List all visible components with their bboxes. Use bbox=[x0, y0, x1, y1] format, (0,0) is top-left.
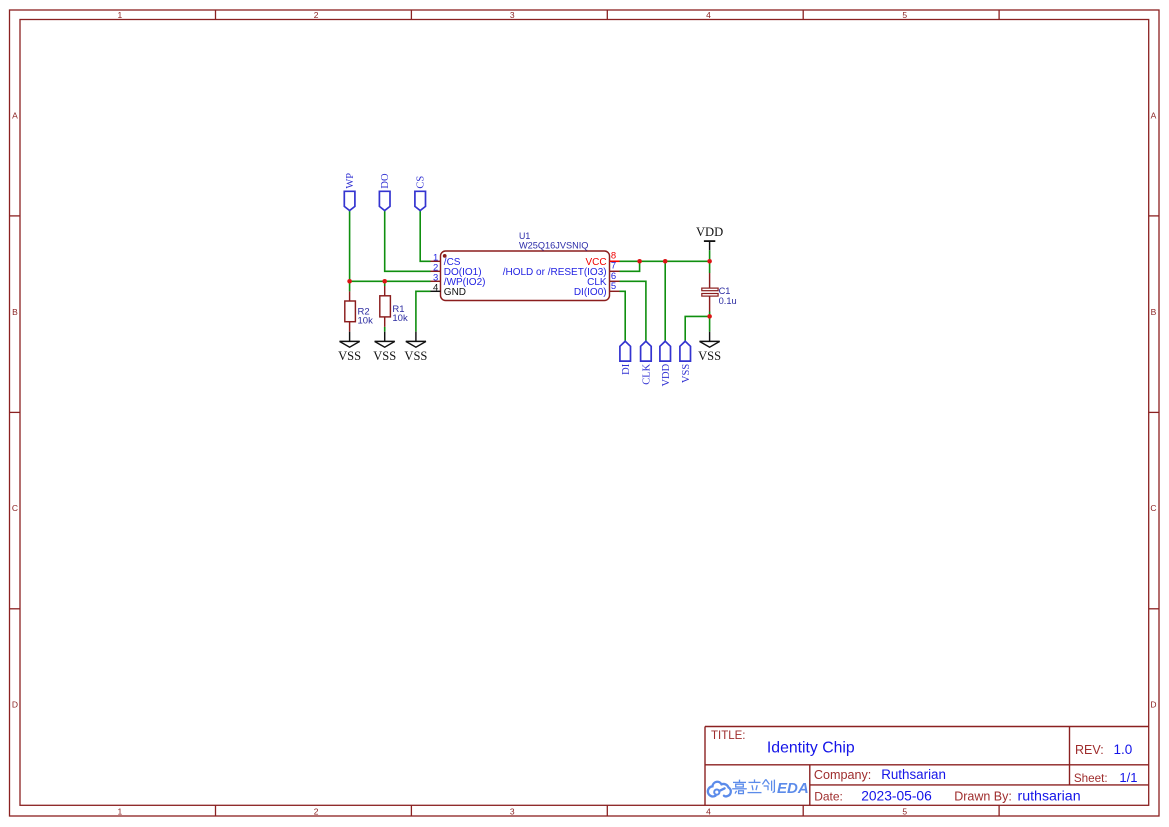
svg-text:C1: C1 bbox=[719, 286, 731, 296]
pin 2 DO(IO1) bbox=[431, 263, 482, 278]
junction node WP/R2 bbox=[347, 279, 352, 284]
svg-text:EDA: EDA bbox=[777, 780, 809, 797]
port DI bbox=[620, 341, 632, 375]
logo cloud icon bbox=[708, 782, 731, 797]
svg-text:VSS: VSS bbox=[698, 349, 721, 363]
logo hanzi jia bbox=[732, 780, 747, 794]
port CLK bbox=[641, 341, 653, 385]
svg-text:U1: U1 bbox=[519, 231, 530, 241]
pin 1 /CS bbox=[431, 253, 461, 268]
wire WP to pin 3 bbox=[350, 280, 431, 282]
port VDD bbox=[660, 341, 672, 386]
svg-text:D: D bbox=[12, 699, 18, 709]
wire C1 bottom to ground bbox=[709, 312, 711, 332]
wire R1 top bbox=[384, 281, 386, 286]
wire C1 top bbox=[709, 261, 711, 273]
power flag VDD bbox=[696, 225, 723, 250]
svg-text:VDD: VDD bbox=[661, 363, 672, 386]
frame row letters left bbox=[12, 111, 18, 710]
ground VSS under C1 bbox=[698, 332, 721, 363]
frame column numbers bottom bbox=[118, 807, 908, 817]
frame row letters right bbox=[1150, 111, 1156, 710]
svg-text:Identity Chip: Identity Chip bbox=[767, 740, 855, 757]
svg-text:TITLE:: TITLE: bbox=[711, 730, 746, 742]
svg-text:2: 2 bbox=[314, 807, 319, 817]
wire pin5 to DI port bbox=[620, 291, 626, 341]
logo hanzi li bbox=[748, 779, 762, 792]
pin 7 /HOLD or /RESET(IO3) bbox=[503, 261, 620, 278]
svg-text:1/1: 1/1 bbox=[1119, 770, 1137, 785]
svg-text:4: 4 bbox=[433, 283, 438, 294]
svg-text:VSS: VSS bbox=[404, 349, 427, 363]
svg-text:Sheet:: Sheet: bbox=[1074, 772, 1108, 785]
frame column numbers top bbox=[118, 10, 908, 20]
wire GND pin4 to ground bbox=[416, 291, 431, 331]
svg-text:Company:: Company: bbox=[814, 768, 871, 782]
wire VSS port to C1 node bbox=[685, 316, 709, 341]
title block lines bbox=[705, 727, 1149, 806]
capacitor C1 bbox=[702, 273, 737, 312]
port VSS bbox=[680, 341, 692, 383]
port DO bbox=[379, 173, 391, 211]
port WP bbox=[344, 173, 356, 211]
junction node R1 bbox=[382, 279, 387, 284]
svg-text:1: 1 bbox=[118, 10, 123, 20]
wire DO vertical bbox=[385, 211, 431, 272]
wire R1 bottom bbox=[384, 327, 386, 332]
pin 6 CLK bbox=[587, 271, 619, 288]
svg-text:ruthsarian: ruthsarian bbox=[1018, 789, 1081, 805]
svg-text:2023-05-06: 2023-05-06 bbox=[861, 789, 932, 804]
wire WP vertical bbox=[349, 211, 351, 282]
svg-text:B: B bbox=[12, 307, 18, 317]
port CS bbox=[415, 176, 427, 211]
op-amp U1 body W25Q16JVSNIQ bbox=[441, 251, 610, 301]
svg-text:A: A bbox=[1151, 111, 1157, 121]
svg-text:4: 4 bbox=[706, 807, 711, 817]
wire R2 top bbox=[349, 281, 351, 291]
svg-text:Drawn By:: Drawn By: bbox=[954, 790, 1012, 804]
svg-text:B: B bbox=[1151, 307, 1157, 317]
svg-text:CLK: CLK bbox=[642, 363, 653, 384]
ground VSS under R2 bbox=[338, 332, 361, 363]
svg-text:C: C bbox=[12, 503, 18, 513]
wire pin7 to rail bbox=[620, 261, 640, 271]
svg-text:D: D bbox=[1150, 699, 1156, 709]
svg-text:A: A bbox=[12, 111, 18, 121]
pin 5 DI(IO0) bbox=[574, 281, 620, 298]
junction node VDD port rail bbox=[663, 259, 668, 264]
svg-text:W25Q16JVSNIQ: W25Q16JVSNIQ bbox=[519, 241, 588, 251]
svg-text:DO: DO bbox=[380, 173, 391, 189]
svg-text:VDD: VDD bbox=[696, 225, 723, 239]
wire rail to VDD port bbox=[664, 261, 666, 341]
resistor R2 bbox=[345, 291, 373, 331]
svg-text:VSS: VSS bbox=[681, 364, 692, 383]
junction node C1 VSS bbox=[707, 314, 712, 319]
junction node pin7 rail bbox=[637, 259, 642, 264]
svg-text:5: 5 bbox=[902, 10, 907, 20]
svg-text:Ruthsarian: Ruthsarian bbox=[881, 767, 946, 782]
svg-text:5: 5 bbox=[611, 281, 616, 292]
junction node C1 rail bbox=[707, 259, 712, 264]
svg-text:4: 4 bbox=[706, 10, 711, 20]
svg-text:DI: DI bbox=[621, 363, 632, 375]
svg-text:VSS: VSS bbox=[338, 349, 361, 363]
pin 8 VCC bbox=[585, 251, 619, 268]
svg-text:GND: GND bbox=[444, 287, 466, 298]
wire VCC rail bbox=[620, 260, 710, 262]
svg-text:10k: 10k bbox=[392, 313, 408, 324]
svg-text:CS: CS bbox=[416, 176, 427, 189]
svg-text:WP: WP bbox=[345, 173, 356, 189]
svg-text:3: 3 bbox=[510, 807, 515, 817]
U1 reference label bbox=[519, 231, 530, 241]
svg-text:1.0: 1.0 bbox=[1114, 742, 1133, 757]
svg-text:1: 1 bbox=[118, 807, 123, 817]
pin 3 /WP(IO2) bbox=[431, 273, 486, 288]
svg-text:DI(IO0): DI(IO0) bbox=[574, 287, 607, 298]
svg-text:10k: 10k bbox=[358, 316, 374, 327]
pin 4 GND bbox=[431, 283, 467, 298]
logo hanzi chuang bbox=[762, 779, 774, 792]
svg-text:C: C bbox=[1150, 503, 1156, 513]
ground VSS under pin4 bbox=[404, 332, 427, 363]
svg-text:5: 5 bbox=[902, 807, 907, 817]
wire pin6 to CLK port bbox=[620, 281, 646, 341]
svg-text:0.1u: 0.1u bbox=[719, 296, 737, 306]
svg-text:2: 2 bbox=[314, 10, 319, 20]
U1 value label bbox=[519, 241, 588, 251]
svg-text:Date:: Date: bbox=[814, 790, 843, 804]
resistor R1 bbox=[380, 286, 408, 327]
wire VDD power lead green bbox=[709, 250, 711, 261]
wire CS vertical bbox=[420, 211, 430, 262]
ground VSS under R1 bbox=[373, 332, 396, 363]
svg-text:3: 3 bbox=[510, 10, 515, 20]
svg-text:VSS: VSS bbox=[373, 349, 396, 363]
svg-text:REV:: REV: bbox=[1075, 743, 1104, 757]
